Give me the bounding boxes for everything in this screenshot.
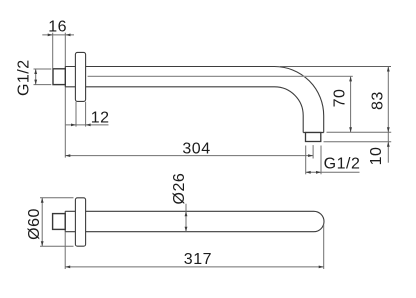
dim O26: leader line (185, 204, 187, 232)
wire: wall/extension vertical line at x=65.3 (64, 33, 66, 158)
svg-text:83: 83 (370, 91, 387, 110)
svg-text:Ø26: Ø26 (171, 173, 188, 205)
dim 83 and dim 10: shared dimension line (387, 67, 389, 163)
dim 10: lower outside arrow (387, 142, 390, 147)
outlet shoulder (303, 132, 324, 134)
svg-text:304: 304 (182, 141, 210, 158)
dim O60: extension lines (40, 197, 74, 199)
wire: thread-bottom extension right (324, 141, 392, 143)
dim 317: arrows (65, 266, 324, 269)
svg-text:G1/2: G1/2 (15, 59, 32, 96)
svg-text:317: 317 (184, 251, 212, 268)
arm tube outline (side view) (65, 67, 323, 133)
dim O60: dimension line (41, 198, 43, 246)
dim 304: dimension line (65, 155, 313, 157)
dim 317: extension line left (64, 232, 66, 269)
wire: shoulder extension right (327, 131, 392, 133)
dim 16: dimension line (42, 34, 74, 36)
tube centerline (grey, runs to dim 70) (88, 75, 353, 77)
dim 317: extension line right (323, 225, 325, 270)
dim G1/2 bottom: dimension line (306, 171, 360, 173)
svg-text:70: 70 (331, 89, 348, 108)
wall flange escutcheon (side view) (75, 52, 85, 101)
dim 16: extension line left (52, 33, 54, 69)
dim O26: arrows (185, 211, 188, 231)
dim 12: arrows (71, 124, 91, 127)
svg-text:12: 12 (91, 110, 110, 127)
svg-text:16: 16 (48, 19, 67, 36)
dim G1/2 left: dimension line (35, 69, 37, 85)
svg-text:Ø60: Ø60 (26, 208, 43, 240)
dim 70: arrows (349, 76, 352, 132)
dim 12: extension lines (75, 102, 77, 127)
dim G1/2 bottom: arrows (306, 171, 321, 174)
dim 304: arrows (65, 154, 313, 157)
dim 317: dimension line (65, 266, 324, 268)
dim 83: arrows (387, 67, 390, 133)
dim G1/2 bottom: extension lines (305, 146, 307, 175)
dim 70: dimension line (350, 76, 352, 132)
wall flange escutcheon (plan view) (75, 198, 85, 246)
dim 16: arrows (48, 34, 71, 37)
outlet thread G1/2 (306, 133, 321, 142)
dim 304: center tick at outlet (312, 145, 314, 158)
svg-text:G1/2: G1/2 (324, 156, 361, 173)
svg-text:10: 10 (368, 147, 385, 166)
wire: arm-top extension right (for dim 83) (280, 66, 391, 68)
wall nipple G1/2 (plan view) (53, 214, 66, 230)
dim G1/2 left: arrows (34, 69, 37, 85)
dim O60: arrows (41, 198, 44, 246)
arm tube outline (plan view) with rounded end (65, 211, 324, 231)
dim G1/2 left: extension lines (34, 68, 52, 70)
wall nipple G1/2 (side view) (53, 69, 65, 85)
dim 12: dimension line (66, 124, 109, 126)
